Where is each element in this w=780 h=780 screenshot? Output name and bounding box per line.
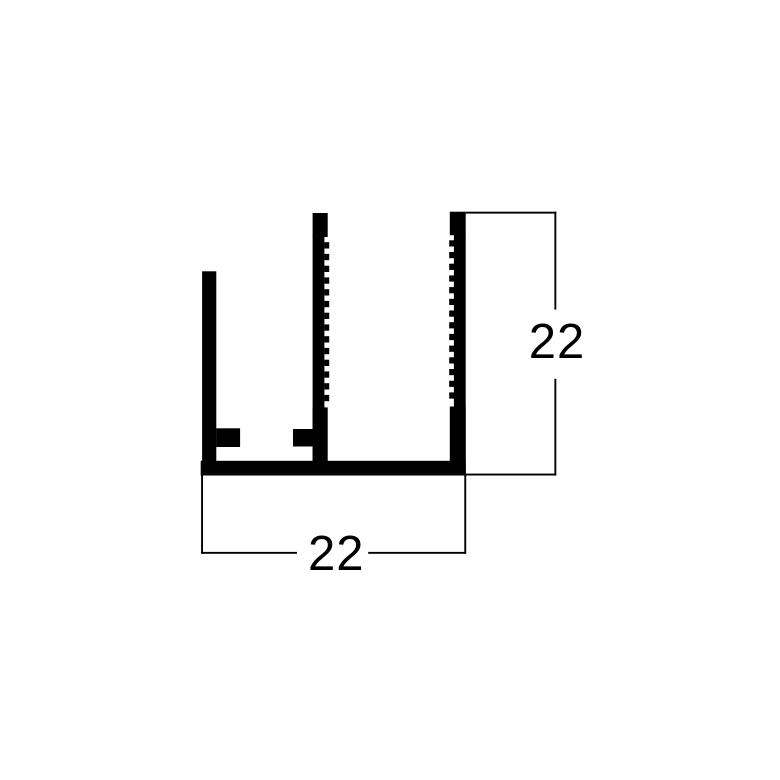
left prong foot tab [216,428,240,447]
left extension line of width dimension [201,476,203,554]
profile base (bottom horizontal flange) [201,461,466,474]
left prong (plain vertical wall) [202,271,216,467]
right prong lower solid section [450,407,466,462]
right extension line of width dimension [464,476,466,554]
horizontal dimension line (bottom, left segment) [201,552,297,554]
middle prong top solid tip [313,213,328,237]
vertical dimension line (right, upper segment) [554,212,556,310]
right prong top solid tip [450,212,466,236]
middle prong shaft [313,236,325,462]
middle prong serrated teeth (right side) [324,242,329,401]
svg-text:22: 22 [529,315,586,369]
middle prong lower solid section [313,407,328,461]
vertical dimension line (right, lower segment) [554,379,556,476]
middle prong foot tab (left side) [293,429,313,447]
top extension line of height dimension [466,212,557,214]
right prong shaft [454,235,466,462]
thin bottom edge line under base, extending right to dimension line [201,474,557,476]
right prong serrated teeth (left side) [449,240,454,398]
horizontal dimension line (bottom, right segment) [368,552,466,554]
svg-text:22: 22 [308,527,365,581]
